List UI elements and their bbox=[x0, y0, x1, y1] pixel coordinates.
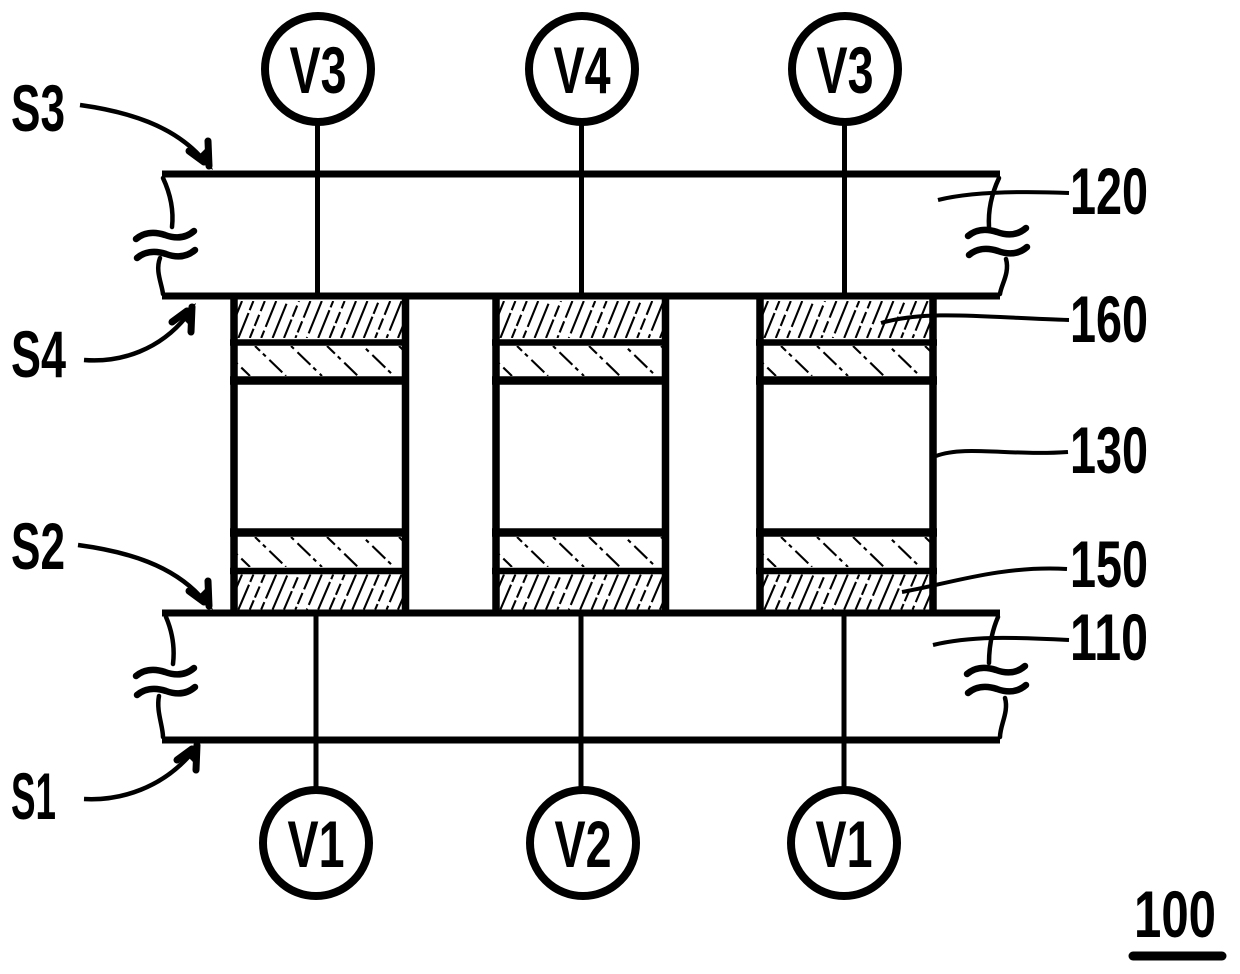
stack3 left wall bbox=[756, 294, 764, 615]
svg-text:160: 160 bbox=[1070, 282, 1148, 356]
stack1 sparse hatched layer (upper \\) bbox=[219, 346, 430, 376]
layer 110 bottom substrate: top edge bbox=[162, 610, 1000, 617]
stack3 right wall bbox=[929, 294, 937, 615]
stack2 sparse hatched layer (lower \\) bbox=[481, 537, 692, 567]
stack1 separator line (above 150 hatch) bbox=[230, 568, 409, 575]
stack3 separator line (above 150 hatch) bbox=[756, 568, 937, 575]
svg-text:130: 130 bbox=[1070, 413, 1148, 487]
svg-text:V1: V1 bbox=[816, 807, 873, 881]
wire: V3 lead to layer 120 (right) bbox=[842, 125, 847, 297]
label 120 with leader bbox=[938, 154, 1148, 228]
stack1 hatched layer 150 (dense //) bbox=[227, 575, 413, 610]
stack2 hatched layer 160 (dense //) bbox=[489, 301, 675, 338]
wire: V4 lead to layer 120 bbox=[579, 125, 584, 297]
label S3 with arrow to top of layer 120 bbox=[11, 71, 213, 170]
layer 110 right break symbol bbox=[989, 617, 1006, 737]
stack1 sparse hatched layer (lower \\) bbox=[219, 537, 430, 567]
layer 120 left break symbol bbox=[158, 178, 172, 294]
stack3 layer 130 bottom boundary bbox=[756, 528, 937, 537]
stack2 layer 130 bottom boundary bbox=[492, 528, 669, 537]
layer 120 right break symbol bbox=[989, 178, 1007, 294]
layer 110 left break symbol bbox=[158, 617, 173, 737]
stack1 separator line (under 160 hatch) bbox=[230, 339, 409, 346]
svg-text:S4: S4 bbox=[11, 317, 66, 391]
svg-text:V4: V4 bbox=[554, 33, 611, 107]
label S1 with arrow to bottom of layer 110 bbox=[11, 741, 201, 833]
stack3 sparse hatched layer (upper \\) bbox=[745, 346, 956, 376]
label 160 with leader bbox=[881, 282, 1148, 356]
terminal V4 (top-middle) bbox=[529, 16, 635, 122]
stack3 layer 130 top boundary bbox=[756, 376, 937, 385]
terminal V3 (top-left) bbox=[265, 16, 371, 122]
svg-text:110: 110 bbox=[1070, 600, 1148, 674]
stack1 layer 130 top boundary bbox=[230, 376, 409, 385]
stack1 right wall bbox=[402, 294, 410, 615]
stack3 hatched layer 150 (dense //) bbox=[753, 575, 939, 610]
wire: V3 lead to layer 120 bbox=[315, 125, 320, 297]
stack2 layer 130 top boundary bbox=[492, 376, 669, 385]
label S2 with arrow to top of layer 110 bbox=[11, 509, 213, 610]
svg-text:V2: V2 bbox=[555, 807, 612, 881]
svg-text:S1: S1 bbox=[11, 759, 56, 833]
stack3 hatched layer 160 (dense //) bbox=[753, 301, 939, 338]
stack3 separator line (under 160 hatch) bbox=[756, 339, 937, 346]
label 130 with leader bbox=[936, 413, 1148, 487]
terminal V1 (bottom-left) bbox=[263, 790, 369, 896]
stack2 hatched layer 150 (dense //) bbox=[489, 575, 675, 610]
stack3 sparse hatched layer (lower \\) bbox=[745, 537, 956, 567]
svg-text:S2: S2 bbox=[11, 509, 65, 583]
stack2 separator line (above 150 hatch) bbox=[492, 568, 669, 575]
wire: V1 lead from layer 110 bbox=[314, 612, 319, 791]
svg-text:100: 100 bbox=[1134, 877, 1216, 951]
stack2 right wall bbox=[662, 294, 670, 615]
stack1 left wall bbox=[230, 294, 238, 615]
stack1 hatched layer 160 (dense //) bbox=[227, 301, 413, 338]
stack2 separator line (under 160 hatch) bbox=[492, 339, 669, 346]
stack1 layer 130 bottom boundary bbox=[230, 528, 409, 537]
svg-text:V1: V1 bbox=[288, 807, 345, 881]
label 150 with leader bbox=[902, 527, 1148, 601]
layer 120 top substrate: top edge bbox=[162, 171, 1000, 178]
layer 110: bottom edge bbox=[162, 737, 1000, 744]
svg-text:V3: V3 bbox=[817, 33, 874, 107]
wire: V2 lead from layer 110 bbox=[579, 612, 584, 791]
terminal V2 (bottom-middle) bbox=[530, 790, 636, 896]
layer 120: bottom edge bbox=[162, 293, 1000, 300]
svg-text:120: 120 bbox=[1070, 154, 1148, 228]
svg-text:S3: S3 bbox=[11, 71, 65, 145]
stack2 sparse hatched layer (upper \\) bbox=[481, 346, 692, 376]
terminal V3 (top-right) bbox=[792, 16, 898, 122]
stack2 left wall bbox=[492, 294, 500, 615]
figure number 100 (underlined) bbox=[1133, 877, 1222, 956]
terminal V1 (bottom-right) bbox=[791, 790, 897, 896]
label S4 with arrow to bottom of layer 120 bbox=[11, 303, 196, 391]
wire: V1 lead from layer 110 (right) bbox=[842, 612, 847, 791]
svg-text:V3: V3 bbox=[290, 33, 347, 107]
label 110 with leader bbox=[933, 600, 1148, 674]
svg-text:150: 150 bbox=[1070, 527, 1148, 601]
